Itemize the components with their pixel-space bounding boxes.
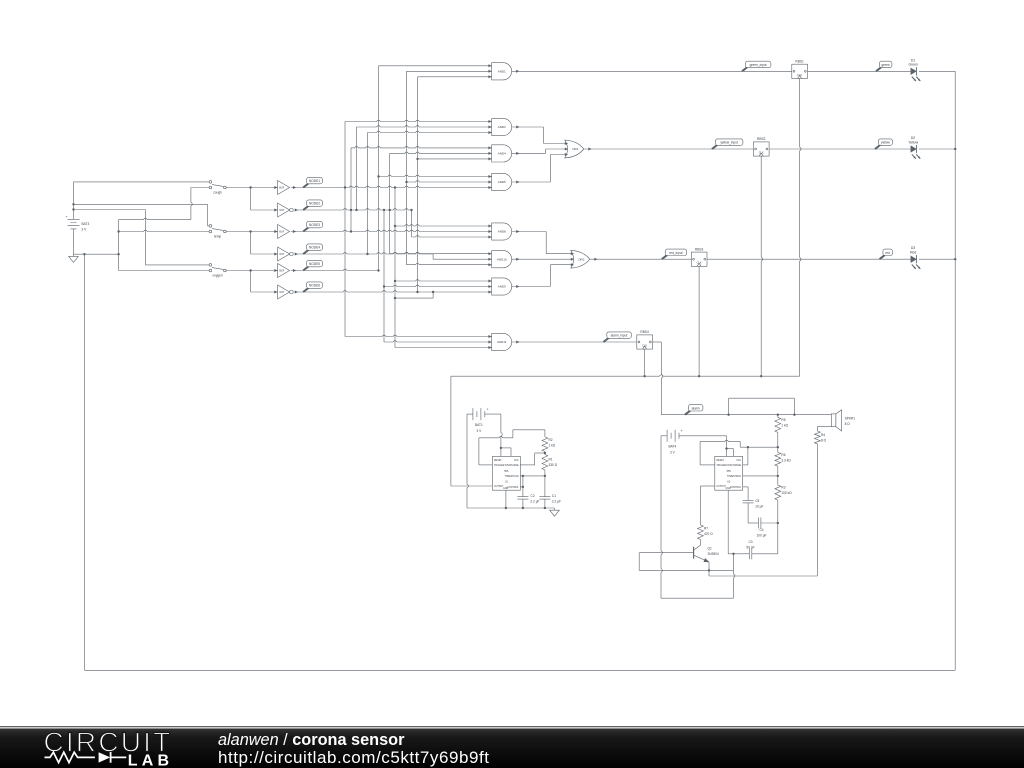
wire mesh v1 [344,122,346,337]
capacitor C4 [757,518,759,529]
wire C3 right lead [752,553,778,555]
svg-text:NODE2: NODE2 [309,202,320,206]
node flag NODE2 [303,206,309,210]
svg-text:R7: R7 [704,527,708,531]
wire R7 to Q1 collector [699,539,701,545]
wire node C2 row [294,291,491,292]
svg-text:R1: R1 [549,458,553,462]
wire R4 riser [816,444,818,576]
wire base bracket [638,553,640,571]
wire U1 control stub [520,486,523,488]
svg-text:2.2 µF: 2.2 µF [552,500,561,504]
wire gate input stub [407,263,492,264]
svg-text:100 µF: 100 µF [757,534,767,538]
svg-text:+: + [65,215,67,219]
wire U2 output [700,485,714,487]
svg-text:Yellow: Yellow [908,140,918,144]
junction A-v1 [344,186,346,188]
svg-text:AND3: AND3 [498,125,506,129]
svg-text:SPKR1: SPKR1 [845,416,856,420]
junction alarm-r5 [777,414,779,416]
svg-text:1 kΩ: 1 kΩ [781,424,788,428]
LED D1 [911,68,916,74]
relay box RBS4 [637,335,653,349]
footer bar with CircuitLab logo and title [0,726,1024,768]
svg-text:Red: Red [910,251,916,255]
junction trigger-discharge [747,446,749,448]
switch SW1 (cough) [209,181,212,184]
wire U1 threshold [520,475,545,477]
battery BAT1 [467,413,473,415]
and-gate AND10 [492,251,512,268]
flag yellow [875,145,881,149]
wire gnd riser x118 [118,220,120,271]
junction U2 vcc [725,447,727,449]
svg-text:DISCHARGE: DISCHARGE [505,464,519,467]
svg-text:BAT4: BAT4 [669,445,677,449]
junction C4-R3col [777,522,779,524]
svg-text:CONTROL: CONTROL [730,487,742,489]
junction A2-v7 [389,209,391,211]
wire AND10 out [512,258,574,260]
svg-text:NOT: NOT [279,291,285,294]
svg-text:VCC: VCC [736,460,741,462]
and-gate AND8 [492,223,512,240]
wire RBS2 to LED D2 [769,148,911,150]
wire OR2 to RBS3 [590,258,692,260]
svg-text:C2: C2 [530,494,534,498]
and-gate AND5 [492,173,512,190]
junction B2-v4 [366,253,368,255]
ground (U1 rail) [554,508,556,510]
wire U1 trigger detour [479,464,493,466]
wire gate input stub [390,152,492,153]
svg-text:BAT1: BAT1 [475,423,483,427]
svg-text:THRESHOLD: THRESHOLD [505,476,520,478]
junction C-v5 [377,269,379,271]
svg-text:Q1: Q1 [708,547,712,551]
wire alarm detour box [728,398,730,415]
wire mesh v10 [417,77,419,292]
wire gate input stub [407,181,492,182]
wire gate input stub [345,335,492,336]
resistor R6 [775,452,781,466]
svg-text:+: + [487,407,489,411]
wire U2 control [741,486,748,488]
wire branch to NOT [250,188,252,211]
wire mesh v3 [356,127,358,210]
node flag NODE5 [303,266,309,270]
buffer BUF2 [278,225,290,239]
svg-text:AND11: AND11 [497,340,507,344]
battery BAT4 [661,435,667,437]
wire RBS1 clk riser [800,78,801,376]
wire mesh v2 [350,148,352,232]
wire LED D1 to right edge [919,70,955,72]
wire gate input stub [368,131,492,132]
junction right-red [954,258,956,260]
svg-text:100 kΩ: 100 kΩ [781,491,792,495]
wire AND4 out [512,152,546,154]
wire node A row [291,186,492,187]
junction v11-A2 [410,209,412,211]
junction +V b [72,208,74,210]
svg-text:green: green [882,63,890,67]
and-gate AND4 [492,145,512,162]
capacitor C5 [743,499,754,501]
wire OR1 to RBS2 [584,148,754,150]
svg-text:RESET: RESET [494,460,502,462]
and-gate AND9 [492,278,512,295]
wire LED D2 to right edge [919,148,955,150]
svg-text:NODE4: NODE4 [309,246,320,250]
svg-text:AND5: AND5 [498,180,506,184]
junction gnd left [83,253,85,255]
svg-text:red: red [885,251,890,255]
wire AND5 out [512,181,551,183]
svg-text:RBS1: RBS1 [795,59,804,63]
wire temp return [119,230,209,231]
node flag NODE3 [303,227,309,231]
junction A2-v2 [350,209,352,211]
svg-text:THRESHOLD: THRESHOLD [727,476,742,478]
wire +V to oxygen throw [74,209,146,211]
wire gate input stub [395,225,492,226]
svg-text:555: 555 [504,470,509,473]
resistor R7 [698,525,704,540]
junction gnd x118 a [117,230,119,232]
or-gate OR1 [565,140,584,158]
svg-text:NODE6: NODE6 [309,284,320,288]
svg-text:C1: C1 [552,494,556,498]
relay box RBS3 [691,252,707,266]
wire gate input stub [433,258,492,260]
svg-text:Green: Green [908,63,918,67]
wire gate input stub [407,70,492,72]
svg-text:330 Ω: 330 Ω [549,463,558,467]
svg-text:NOT: NOT [279,253,285,256]
wire R2-R1 [544,452,546,455]
node flag NODE1 [303,183,309,187]
wire U2 trigger detour [700,464,715,466]
wire mesh v8 jog to C2 row [395,297,433,299]
wire BAT4 minus down [661,436,662,598]
wire C2 bottom [522,499,524,508]
wire alarm rail [661,414,831,416]
svg-text:R4: R4 [821,433,825,437]
wire oxygen return [119,270,209,272]
svg-text:AND8: AND8 [498,230,506,234]
junction gnd-U1 [505,507,507,509]
wire bottom edge [84,669,955,671]
junction alarm-u2top [727,414,729,416]
wire gate input stub [418,76,492,78]
wire right edge [954,71,956,670]
wire branch to NOT [250,271,252,293]
junction buffer branch [249,230,251,232]
junction gnd-C1 [544,507,546,509]
junction alarm-spk [793,414,795,416]
wire switch to BUF [226,231,277,233]
wire AND1 to RBS1 [512,70,792,72]
wire AND9 out [512,286,551,288]
wire U1 discharge [520,464,534,466]
switch SW2 (temp) [209,225,212,228]
svg-text:R5: R5 [781,418,785,422]
wire gnd rail left [74,253,119,255]
wire switch to BUF [226,187,277,189]
svg-text:cough: cough [213,190,222,194]
wire gate input stub [384,285,492,286]
wire mesh v4 [367,133,369,255]
svg-text:C4: C4 [759,528,763,532]
junction clk RBS3 [698,375,700,377]
svg-text:RBS4: RBS4 [640,330,649,334]
wire U2 gnd riser [727,490,729,554]
capacitor C3 [748,548,750,559]
svg-text:OR1: OR1 [572,147,579,151]
flag red_input [662,255,668,259]
wire C4 right lead [761,522,778,524]
junction A-v8 [394,186,396,188]
wire U2 vcc stub [727,448,734,450]
wire R4 to speaker [816,427,818,432]
junction +V a [72,203,74,205]
junction R2-R1 [544,452,546,454]
svg-text:AND9: AND9 [498,285,506,289]
wire RBS4 clk riser [644,349,646,376]
wire RBS3 to LED D3 [707,258,911,260]
svg-text:red_input: red_input [669,251,682,255]
wire mesh v8 [394,188,396,348]
wire cough return [119,218,191,219]
and-gate AND3 [492,118,512,135]
svg-text:3 V: 3 V [477,429,483,433]
svg-text:CONTROL: CONTROL [507,487,519,489]
wire R2 top lead [544,430,546,437]
svg-text:R2: R2 [549,438,553,442]
svg-text:temp: temp [214,234,221,238]
555 timer U2 [715,456,743,490]
svg-text:NODE1: NODE1 [309,179,320,183]
junction gnd-C2 [522,507,524,509]
junction emitter-bracket [708,569,710,571]
wire mesh v5 [378,66,380,271]
svg-text:alanwen / corona sensor: alanwen / corona sensor [218,731,405,749]
or-gate OR2 [571,250,590,268]
svg-text:BUF: BUF [279,231,284,234]
junction C3-gnd [732,553,734,555]
svg-text:470 Ω: 470 Ω [704,532,713,536]
wire gate input stub [418,158,492,160]
wire RBS4 out to alarm rail [653,341,662,343]
svg-text:C5: C5 [755,499,759,503]
flag alarm [685,410,691,414]
wire U1 ground rail [467,507,555,509]
wire C2 riser [522,476,524,497]
wire gate input stub [412,236,492,237]
wire switch to BUF [226,270,277,272]
svg-text:AND10: AND10 [497,257,507,261]
wire node B2 row [294,253,433,254]
and-gate AND11 [492,333,512,350]
wire left edge [83,254,85,670]
svg-text:BUF: BUF [279,270,284,273]
wire gate input stub [351,146,492,147]
junction C2-v10 [416,291,418,293]
wire U2 threshold [741,475,777,477]
LED D3 [911,256,916,262]
wire LED D3 to right edge [919,258,955,260]
svg-text:oxygen: oxygen [212,273,223,277]
wire C3 left lead [728,553,749,555]
wire gate input stub [384,341,492,342]
junction buffer branch [249,269,251,271]
wire RBS1 to LED D1 [808,70,912,72]
svg-text:3 V: 3 V [670,451,676,455]
wire +V to temp throw [74,203,208,205]
svg-text:AND1: AND1 [498,70,506,74]
node flag NODE4 [303,250,309,254]
svg-text:NODE5: NODE5 [309,262,320,266]
wire gate input stub [345,120,492,121]
svg-text:DISCHARGE: DISCHARGE [727,464,741,467]
wire RBS2 clk riser [761,156,762,376]
wire mesh v7 [389,153,391,253]
svg-text:3.3 kΩ: 3.3 kΩ [781,459,791,463]
transistor Q1 [693,547,695,559]
buffer BUF3 [278,264,290,278]
junction threshold-C2 [522,475,524,477]
svg-text:alarm: alarm [692,406,700,410]
inverter NOT1 [278,203,290,217]
svg-text:BAT3: BAT3 [82,222,90,226]
wire gate input stub [395,280,492,281]
wire C3 to gnd rail [734,554,735,598]
wire node C row [291,269,379,270]
wire mesh v12 (B2 jog) [432,254,434,259]
junction R1-threshold [544,475,546,477]
svg-text:NODE3: NODE3 [309,223,320,227]
wire R5-R6 [777,432,779,452]
svg-text:8 Ω: 8 Ω [845,422,851,426]
junction jog-C2row [432,291,434,293]
resistor R4 [815,431,821,444]
relay box RBS1 [792,64,808,78]
junction U1 vcc [500,447,502,449]
wire clock rail [451,375,800,376]
svg-text:50 nF: 50 nF [746,546,754,550]
capacitor C1 [539,496,550,498]
resistor R3 [775,485,781,500]
wire C1 riser [544,476,546,497]
wire clk rail to U1 OUTPUT [450,376,452,486]
svg-text:2N3904: 2N3904 [708,552,719,556]
wire alarm to R5 [777,415,779,418]
flag green_input [742,67,748,71]
wire AND3 out [512,126,544,128]
inverter NOT2 [278,247,290,261]
junction right-yellow [954,148,956,150]
flag red [880,255,886,259]
wire mesh v9 [406,71,408,264]
resistor R2 [542,437,548,452]
svg-text:BUF: BUF [279,187,284,190]
svg-text:RESET: RESET [716,460,724,462]
junction A2-v3 [355,209,357,211]
resistor R5 [775,417,781,432]
svg-text:1 kΩ: 1 kΩ [549,444,556,448]
svg-text:R3: R3 [781,486,785,490]
and-gate AND1 [492,63,512,80]
wire BAT1 plus to U1 [501,414,502,456]
svg-text:http://circuitlab.com/c5ktt7y6: http://circuitlab.com/c5ktt7y69b9ft [218,748,490,767]
junction A2-v6 [383,209,385,211]
junction v8-AND8top [394,225,396,227]
wire C1 bottom [544,499,546,508]
wire Q1 emitter down [708,562,710,576]
wire U1 gnd riser [505,490,507,508]
wire BAT1 minus down [467,414,468,508]
wire R1 bottom [544,470,546,476]
555 timer U1 [492,456,520,490]
junction C2-control [522,486,524,488]
wire +V to cough throw [74,181,209,183]
speaker SPKR1 [831,414,836,427]
junction R5-R6 [777,446,779,448]
wire node A2 row [294,209,411,210]
svg-text:yellow_input: yellow_input [720,141,738,145]
wire emitter rail [709,575,817,577]
ground (battery BAT3) [73,254,75,256]
svg-text:AND4: AND4 [498,152,506,156]
junction B-v2 [350,230,352,232]
resistor R1 [542,455,548,470]
svg-text:RBS3: RBS3 [695,247,704,251]
junction v8-AND9top [394,280,396,282]
wire gate input stub [357,126,492,127]
junction buffer branch [249,186,251,188]
wire node B row [291,230,492,231]
buffer BUF1 [278,181,290,195]
svg-text:2.2 µF: 2.2 µF [530,500,539,504]
svg-text:NOT: NOT [279,209,285,212]
relay box RBS2 [753,142,769,156]
inverter NOT3 [278,285,290,299]
junction v6-AND9mid [383,285,385,287]
junction gnd x118 b [117,253,119,255]
wire RBS3 clk riser [698,266,700,376]
wire AND8 out [512,231,547,233]
flag yellow_input [712,145,718,149]
svg-text:R6: R6 [781,453,785,457]
wire U2 discharge [741,464,748,466]
wire gate input stub [379,65,492,67]
junction v5-AND5top [377,175,379,177]
wire gate input stub [379,175,492,176]
svg-text:10 µF: 10 µF [755,505,763,509]
wire gate input stub [395,347,492,349]
wire R6-R3 [777,466,779,485]
wire mesh v6 [383,210,385,342]
junction v9-AND5mid [405,181,407,183]
svg-text:555: 555 [727,470,732,473]
wire BAT4 plus to U2 reset [726,436,728,457]
svg-text:8 Ω: 8 Ω [821,439,827,443]
switch SW3 (oxygen) [209,264,212,267]
wire U2 gnd rail [661,597,734,599]
junction R6-threshold [777,475,779,477]
